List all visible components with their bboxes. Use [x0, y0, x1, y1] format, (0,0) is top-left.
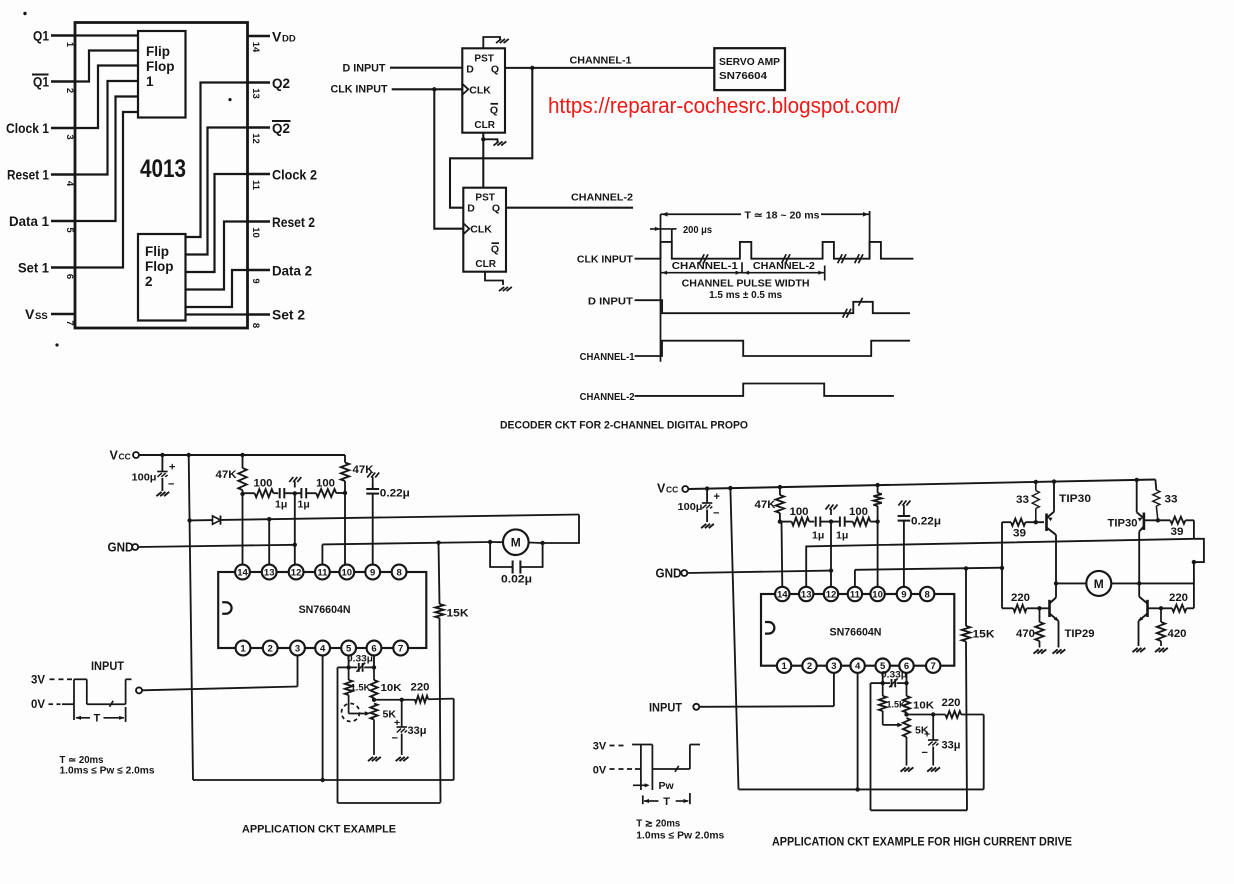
- svg-text:TIP30: TIP30: [1059, 493, 1091, 505]
- wire input to pin3 (right ckt): [699, 705, 834, 708]
- svg-text:220: 220: [1169, 592, 1188, 604]
- node vcc/47K: [240, 453, 244, 457]
- svg-text:1.5K: 1.5K: [351, 683, 371, 694]
- svg-text:33: 33: [1016, 494, 1029, 506]
- svg-text:470: 470: [1016, 628, 1035, 640]
- wire pin9 to FF2: [186, 270, 248, 307]
- ground below 100u: [156, 492, 169, 496]
- svg-text:7: 7: [398, 644, 403, 655]
- IC SN76604N body: [218, 565, 426, 656]
- ground TIP29 emitter: [1053, 649, 1066, 653]
- svg-text:+: +: [924, 729, 930, 741]
- pin 9 stub: [248, 269, 271, 272]
- wire left tall vertical: [189, 455, 193, 780]
- svg-text:14: 14: [250, 42, 261, 53]
- svg-text:INPUT: INPUT: [649, 701, 683, 715]
- ground below 33u (right ckt): [927, 767, 940, 771]
- svg-text:Q2: Q2: [272, 75, 290, 91]
- resistor 100 left (right ckt): [780, 518, 814, 526]
- svg-text:−: −: [713, 508, 719, 520]
- svg-text:9: 9: [370, 568, 375, 579]
- svg-text:4: 4: [855, 661, 861, 672]
- svg-text:D INPUT: D INPUT: [343, 63, 386, 75]
- INPUT terminal: [136, 687, 142, 693]
- wire U1A Q to servo amp (CHANNEL-1): [505, 67, 714, 69]
- svg-text:47K: 47K: [216, 469, 237, 481]
- wire pin13 riser: [268, 519, 270, 565]
- wire motor right lead: [1111, 582, 1194, 584]
- capacitor 33u: [392, 700, 407, 755]
- T measure (right ckt): [643, 793, 690, 804]
- wire CLR ground stub: [483, 139, 497, 142]
- capacitor 0.22u (right ckt): [898, 501, 911, 588]
- wiper arrow to 5K (right ckt): [883, 723, 903, 728]
- wire pin5 to FF1: [75, 97, 138, 222]
- node y520 pin13: [267, 517, 271, 521]
- svg-text:+: +: [714, 491, 720, 503]
- svg-text:100μ: 100μ: [132, 472, 157, 484]
- node 33/39 junction: [1034, 520, 1038, 524]
- svg-text:1: 1: [146, 74, 154, 89]
- svg-text:39: 39: [1013, 528, 1026, 540]
- wire gnd segment to cell vertical: [855, 568, 1002, 570]
- wire D INPUT to U1A D: [390, 67, 462, 69]
- ground NPN right emitter: [1133, 648, 1146, 652]
- wire pin4 to FF1: [75, 81, 138, 175]
- svg-text:12: 12: [826, 590, 837, 601]
- svg-text:9: 9: [250, 278, 261, 283]
- wire pin14 riser (right ckt): [781, 522, 784, 588]
- node caps mid: [293, 491, 297, 495]
- wire pin3 riser: [297, 655, 299, 687]
- svg-text:14: 14: [237, 568, 248, 579]
- pin 2 stub: [51, 80, 75, 83]
- svg-text:M: M: [1094, 577, 1104, 591]
- svg-text:https://reparar-cochesrc.blogs: https://reparar-cochesrc.blogspot.com/: [548, 93, 901, 118]
- svg-text:1: 1: [781, 661, 787, 672]
- svg-text:15K: 15K: [447, 608, 469, 620]
- svg-text:3V: 3V: [593, 741, 607, 753]
- node 33u tap: [400, 698, 404, 702]
- svg-text:4: 4: [320, 644, 326, 655]
- VCC terminal: [682, 486, 688, 492]
- wire rail corner down to 33 right: [1154, 480, 1157, 491]
- svg-text:CHANNEL-2: CHANNEL-2: [753, 260, 815, 272]
- svg-text:6: 6: [64, 274, 75, 279]
- svg-text:GND: GND: [108, 541, 134, 555]
- ground below 33u: [396, 757, 409, 761]
- node pin4/bottom rail: [320, 778, 324, 782]
- node below 10K (right ckt): [904, 712, 908, 716]
- resistor 220 right cell: [1161, 605, 1194, 612]
- node vcc/33 left: [1034, 480, 1038, 484]
- wire bottom rail to 220: [193, 779, 454, 781]
- svg-text:Flip: Flip: [146, 44, 170, 59]
- svg-text:DD: DD: [282, 34, 296, 45]
- node gnd/pin12 vertical: [293, 543, 297, 547]
- break marks on CLK trace: [700, 254, 863, 263]
- svg-text:13: 13: [264, 568, 275, 579]
- svg-text:Q1: Q1: [33, 74, 49, 90]
- node vcc/47K: [778, 485, 782, 489]
- wire pin5 to loop left: [338, 666, 349, 668]
- pin 1 stub: [51, 34, 75, 37]
- node gnd/pin12: [829, 568, 833, 572]
- wire pin3 to FF1: [75, 66, 138, 129]
- VCC terminal: [133, 452, 139, 458]
- node pin6: [372, 665, 376, 669]
- node vcc/left vertical: [187, 453, 191, 457]
- transistor TIP30 right (PNP mirrored): [1137, 480, 1144, 532]
- svg-text:D: D: [467, 203, 475, 215]
- pin 5 stub: [51, 220, 75, 223]
- node 33u tap (right ckt): [931, 712, 935, 716]
- svg-text:T ≳ 20ms: T ≳ 20ms: [636, 819, 680, 830]
- IC 4013 pinout outer body: [75, 23, 248, 329]
- svg-text:2: 2: [807, 661, 812, 672]
- svg-text:Pw: Pw: [659, 780, 675, 792]
- wire node to 220: [374, 699, 415, 701]
- pin 4 stub: [51, 173, 75, 176]
- wire pin5 stub (right ckt): [882, 672, 884, 683]
- node right res bottom: [875, 519, 879, 523]
- svg-text:420: 420: [1168, 628, 1187, 640]
- node U1A CLR: [481, 137, 485, 141]
- wire hook vertical down: [1193, 562, 1195, 608]
- svg-text:0.22μ: 0.22μ: [911, 516, 941, 528]
- svg-text:100: 100: [254, 478, 273, 490]
- svg-text:CLK: CLK: [469, 84, 491, 96]
- pin 10 stub: [248, 220, 271, 223]
- capacitor 1u first (right ckt): [816, 517, 831, 527]
- wire 39 right corner down: [1193, 520, 1195, 539]
- wire GND rail: [138, 545, 295, 547]
- svg-text:CLK: CLK: [470, 224, 492, 236]
- wire VCC rail: [139, 454, 345, 456]
- svg-text:SN76604: SN76604: [719, 70, 767, 82]
- svg-text:14: 14: [777, 590, 788, 601]
- svg-text:0.33μ: 0.33μ: [881, 670, 907, 681]
- svg-text:+: +: [169, 462, 175, 474]
- wire loop bottom: [338, 802, 441, 804]
- svg-text:33μ: 33μ: [942, 740, 961, 752]
- svg-text:33: 33: [1165, 494, 1178, 506]
- svg-text:1μ: 1μ: [812, 530, 824, 542]
- wire GND rail (right ckt): [687, 571, 831, 573]
- ground below 5K (right ckt): [901, 767, 914, 771]
- resistor 100 (right): [316, 489, 345, 497]
- resistor 420: [1157, 608, 1165, 646]
- pin 8 stub: [248, 313, 271, 316]
- wire pin6 stub (right ckt): [906, 672, 908, 683]
- svg-text:V: V: [657, 482, 666, 496]
- transistor TIP30 left (PNP): [1047, 482, 1057, 535]
- transistor TIP29 (NPN): [1040, 598, 1059, 622]
- ground below 420: [1155, 648, 1168, 652]
- potentiometer 5K: [370, 704, 377, 756]
- wire U1B CLR ground stub: [485, 272, 503, 285]
- node motor left: [488, 540, 492, 544]
- svg-text:2: 2: [145, 274, 153, 289]
- wire loop bottom (right ckt): [871, 809, 968, 811]
- pin 6 stub: [51, 266, 75, 269]
- wire CLK lead: [635, 258, 661, 260]
- node 47K bottom: [778, 519, 782, 523]
- hook at line end: [1194, 539, 1204, 562]
- svg-text:D: D: [466, 63, 474, 75]
- svg-text:CHANNEL-1: CHANNEL-1: [580, 351, 635, 363]
- svg-text:3: 3: [64, 134, 75, 139]
- svg-text:Flop: Flop: [146, 59, 175, 74]
- svg-text:TIP30: TIP30: [1108, 518, 1138, 530]
- svg-text:10: 10: [250, 227, 261, 238]
- svg-text:10: 10: [872, 590, 883, 601]
- ground at U1B CLR: [499, 287, 512, 291]
- wire node to pin10: [344, 493, 346, 565]
- svg-text:9: 9: [901, 590, 906, 601]
- wire long line y520 with diode: [190, 515, 579, 525]
- speckle dot: [55, 343, 58, 346]
- node gnd/15K: [964, 566, 968, 570]
- resistor unlabeled 47K (right ckt): [873, 485, 881, 521]
- svg-text:1: 1: [64, 42, 75, 48]
- svg-text:Data 2: Data 2: [272, 263, 312, 279]
- svg-text:Reset 2: Reset 2: [272, 214, 315, 230]
- pin 12 stub: [248, 126, 271, 129]
- capacitor 1u first: [280, 488, 295, 498]
- svg-text:2: 2: [268, 644, 273, 655]
- wire bottom rail (right ckt): [739, 788, 984, 790]
- svg-text:T: T: [663, 796, 670, 808]
- svg-text:4013: 4013: [140, 155, 186, 183]
- pin 7 stub: [51, 313, 75, 316]
- ground below 5K: [368, 757, 381, 761]
- T measure line with arrows: [661, 212, 870, 217]
- capacitor 100u (right): [702, 489, 720, 522]
- svg-text:V: V: [272, 29, 282, 45]
- svg-text:1.5 ms ± 0.5 ms: 1.5 ms ± 0.5 ms: [709, 289, 782, 301]
- wire motor left lead: [1056, 582, 1086, 584]
- svg-text:Q2: Q2: [272, 120, 290, 136]
- wire VCC rail sloped: [688, 480, 1155, 490]
- label VCC: [110, 449, 131, 463]
- svg-text:100: 100: [790, 506, 809, 518]
- node U1A Q branch: [530, 66, 534, 70]
- wire pin4 riser: [322, 655, 324, 780]
- ground below 470: [1034, 649, 1047, 653]
- wire TIP30 right collector: [1138, 532, 1140, 584]
- svg-text:0V: 0V: [31, 699, 45, 711]
- wire pin11 riser to gnd: [321, 544, 323, 565]
- resistor 33 left: [1032, 482, 1039, 522]
- wire left tall vertical (right ckt): [730, 488, 738, 789]
- node 47K/100: [240, 492, 244, 496]
- wire y520 corner to motor right: [543, 515, 579, 544]
- input T measure: [76, 707, 126, 722]
- svg-text:CLR: CLR: [475, 259, 496, 270]
- wire NPN right collector: [1138, 583, 1140, 596]
- 3V dashes: [610, 745, 624, 747]
- resistor 10K: [370, 667, 377, 699]
- capacitor 0.33u (right ckt): [883, 678, 907, 687]
- svg-text:T ≃ 20ms: T ≃ 20ms: [60, 755, 104, 766]
- resistor 47K left: [238, 455, 246, 494]
- wire motor leads: [490, 542, 542, 543]
- resistor 15K (right ckt): [962, 569, 970, 811]
- CLK INPUT waveform: [661, 242, 914, 259]
- svg-text:CHANNEL-1: CHANNEL-1: [672, 260, 738, 272]
- svg-text:10K: 10K: [381, 682, 402, 694]
- resistor 100 right (right ckt): [853, 518, 878, 526]
- resistor 33 right: [1153, 490, 1160, 520]
- svg-text:+: +: [394, 717, 400, 729]
- svg-text:1μ: 1μ: [275, 499, 287, 511]
- svg-text:13: 13: [801, 590, 812, 601]
- wire pin5 stub: [348, 655, 350, 668]
- pin 13 stub: [248, 81, 271, 84]
- svg-text:GND: GND: [656, 567, 682, 581]
- node vcc/100u: [160, 453, 164, 457]
- speckle dot: [228, 98, 231, 101]
- capacitor 0.22u: [366, 473, 379, 566]
- node pin5 (right ckt): [881, 681, 885, 685]
- wire input to pin3: [142, 687, 298, 691]
- svg-text:220: 220: [1011, 592, 1030, 604]
- wiper arrow to 5K: [349, 711, 371, 716]
- node vcc/TIP30-2 emitter: [1135, 478, 1139, 482]
- resistor 1.5K: [345, 667, 353, 713]
- svg-text:10K: 10K: [913, 700, 934, 712]
- wire pin13 to FF2: [186, 83, 248, 238]
- svg-text:220: 220: [411, 682, 430, 694]
- svg-text:Q: Q: [491, 244, 499, 256]
- ground at U1A PST: [496, 39, 509, 43]
- capacitor 0.33u between pin5 and pin6: [349, 663, 374, 672]
- svg-text:DECODER CKT FOR 2-CHANNEL DIGI: DECODER CKT FOR 2-CHANNEL DIGITAL PROPO: [500, 420, 748, 432]
- svg-text:INPUT: INPUT: [91, 659, 125, 673]
- wire pin10 to FF2: [186, 222, 248, 290]
- timing reference line: [660, 214, 662, 361]
- capacitor 100u: [157, 455, 175, 491]
- wire pin4 riser (right ckt): [857, 672, 859, 789]
- svg-text:0.33μ: 0.33μ: [347, 654, 373, 665]
- svg-text:−: −: [922, 747, 928, 759]
- svg-text:5: 5: [64, 227, 75, 233]
- wire TIP30 left collector: [1055, 535, 1057, 584]
- svg-text:1.0ms ≤ Pw 2.0ms: 1.0ms ≤ Pw 2.0ms: [636, 831, 724, 842]
- node below 10K: [372, 698, 376, 702]
- 0V dashes: [610, 768, 633, 770]
- node vcc/right res: [875, 483, 879, 487]
- svg-text:CHANNEL PULSE WIDTH: CHANNEL PULSE WIDTH: [682, 278, 810, 290]
- wire pin8 to FF2: [186, 313, 248, 315]
- svg-text:−: −: [168, 479, 174, 491]
- wire pin14 riser: [242, 494, 244, 565]
- break marks on D trace: [843, 298, 863, 318]
- svg-text:Q1: Q1: [33, 28, 49, 44]
- svg-text:CC: CC: [666, 485, 678, 495]
- resistor 47K (right ckt): [776, 487, 784, 521]
- svg-text:SN76604N: SN76604N: [830, 627, 882, 639]
- INPUT terminal (right ckt): [693, 704, 699, 710]
- svg-text:7: 7: [931, 661, 936, 672]
- svg-text:33μ: 33μ: [408, 725, 427, 737]
- resistor 39 left: [1011, 519, 1044, 526]
- node caps mid (right ckt): [829, 519, 833, 523]
- wire TIP29 emitter down: [1058, 621, 1060, 648]
- label Q1-bar: [32, 74, 49, 90]
- resistor 1.5K (right ckt): [879, 683, 887, 725]
- svg-text:CLR: CLR: [474, 120, 495, 131]
- svg-text:V: V: [110, 449, 119, 463]
- resistor 15K: [435, 543, 443, 803]
- svg-text:SS: SS: [35, 311, 48, 322]
- node hook: [1192, 560, 1196, 564]
- svg-text:1μ: 1μ: [836, 530, 848, 542]
- node vcc/TIP30 emitter: [1052, 479, 1056, 483]
- channel width bracket: [661, 262, 825, 280]
- transistor NPN right (unlabeled): [1138, 597, 1161, 622]
- CHANNEL-2 waveform: [635, 384, 894, 396]
- node vcc/left vertical: [728, 486, 732, 490]
- wire U1A PST pull-up stub: [483, 37, 500, 48]
- svg-text:4: 4: [64, 181, 75, 187]
- svg-text:Data 1: Data 1: [9, 213, 49, 229]
- label VDD: [272, 29, 296, 45]
- svg-text:1: 1: [240, 644, 246, 655]
- potentiometer 5K (right ckt): [903, 718, 910, 766]
- wire loop left vertical: [337, 667, 339, 803]
- wire U1A CLR to U1B PST: [482, 133, 484, 188]
- svg-text:SN76604N: SN76604N: [299, 604, 351, 616]
- flip flop 2 block: [138, 234, 186, 321]
- node 220/470 junction: [1037, 606, 1041, 610]
- wire pin6 to FF1: [75, 112, 138, 268]
- wire pin11 riser: [854, 570, 856, 588]
- node 33/39 right junction: [1156, 518, 1160, 522]
- node gnd/15K: [436, 541, 440, 545]
- svg-text:0V: 0V: [593, 765, 607, 777]
- svg-text:Flop: Flop: [145, 259, 174, 274]
- wire pin11 to FF2: [186, 174, 248, 272]
- svg-text:APPLICATION CKT EXAMPLE FOR HI: APPLICATION CKT EXAMPLE FOR HIGH CURRENT…: [772, 837, 1072, 849]
- svg-text:M: M: [511, 536, 521, 550]
- wire pin13 riser and long line: [806, 539, 1194, 588]
- node pin4/bottom: [855, 787, 859, 791]
- speckle dot: [23, 12, 26, 15]
- svg-text:11: 11: [317, 568, 328, 579]
- capacitor 1u second (right ckt): [831, 517, 853, 527]
- svg-text:11: 11: [850, 590, 861, 601]
- svg-text:Q: Q: [490, 104, 498, 116]
- svg-text:200 μs: 200 μs: [683, 224, 712, 236]
- wire gnd segment to motor: [322, 542, 490, 544]
- wire U1A Q wrap to U1B D: [450, 68, 532, 208]
- input waveform (right ckt): [632, 745, 700, 791]
- IC SN76604N body (right ckt): [761, 587, 954, 673]
- svg-text:Clock 1: Clock 1: [6, 120, 49, 136]
- capacitor 0.02u across motor: [490, 542, 542, 574]
- svg-text:Clock 2: Clock 2: [272, 167, 317, 183]
- svg-text:8: 8: [396, 568, 401, 579]
- input waveform: [49, 679, 132, 720]
- wire CLK INPUT to U1A CLK: [392, 88, 463, 90]
- wire loop left vertical (right ckt): [870, 683, 872, 810]
- svg-text:1.0ms ≤ Pw ≤ 2.0ms: 1.0ms ≤ Pw ≤ 2.0ms: [60, 766, 155, 777]
- wire pin1 to FF1: [75, 34, 138, 36]
- svg-text:3: 3: [831, 661, 836, 672]
- wire base node right cell: [1144, 519, 1170, 521]
